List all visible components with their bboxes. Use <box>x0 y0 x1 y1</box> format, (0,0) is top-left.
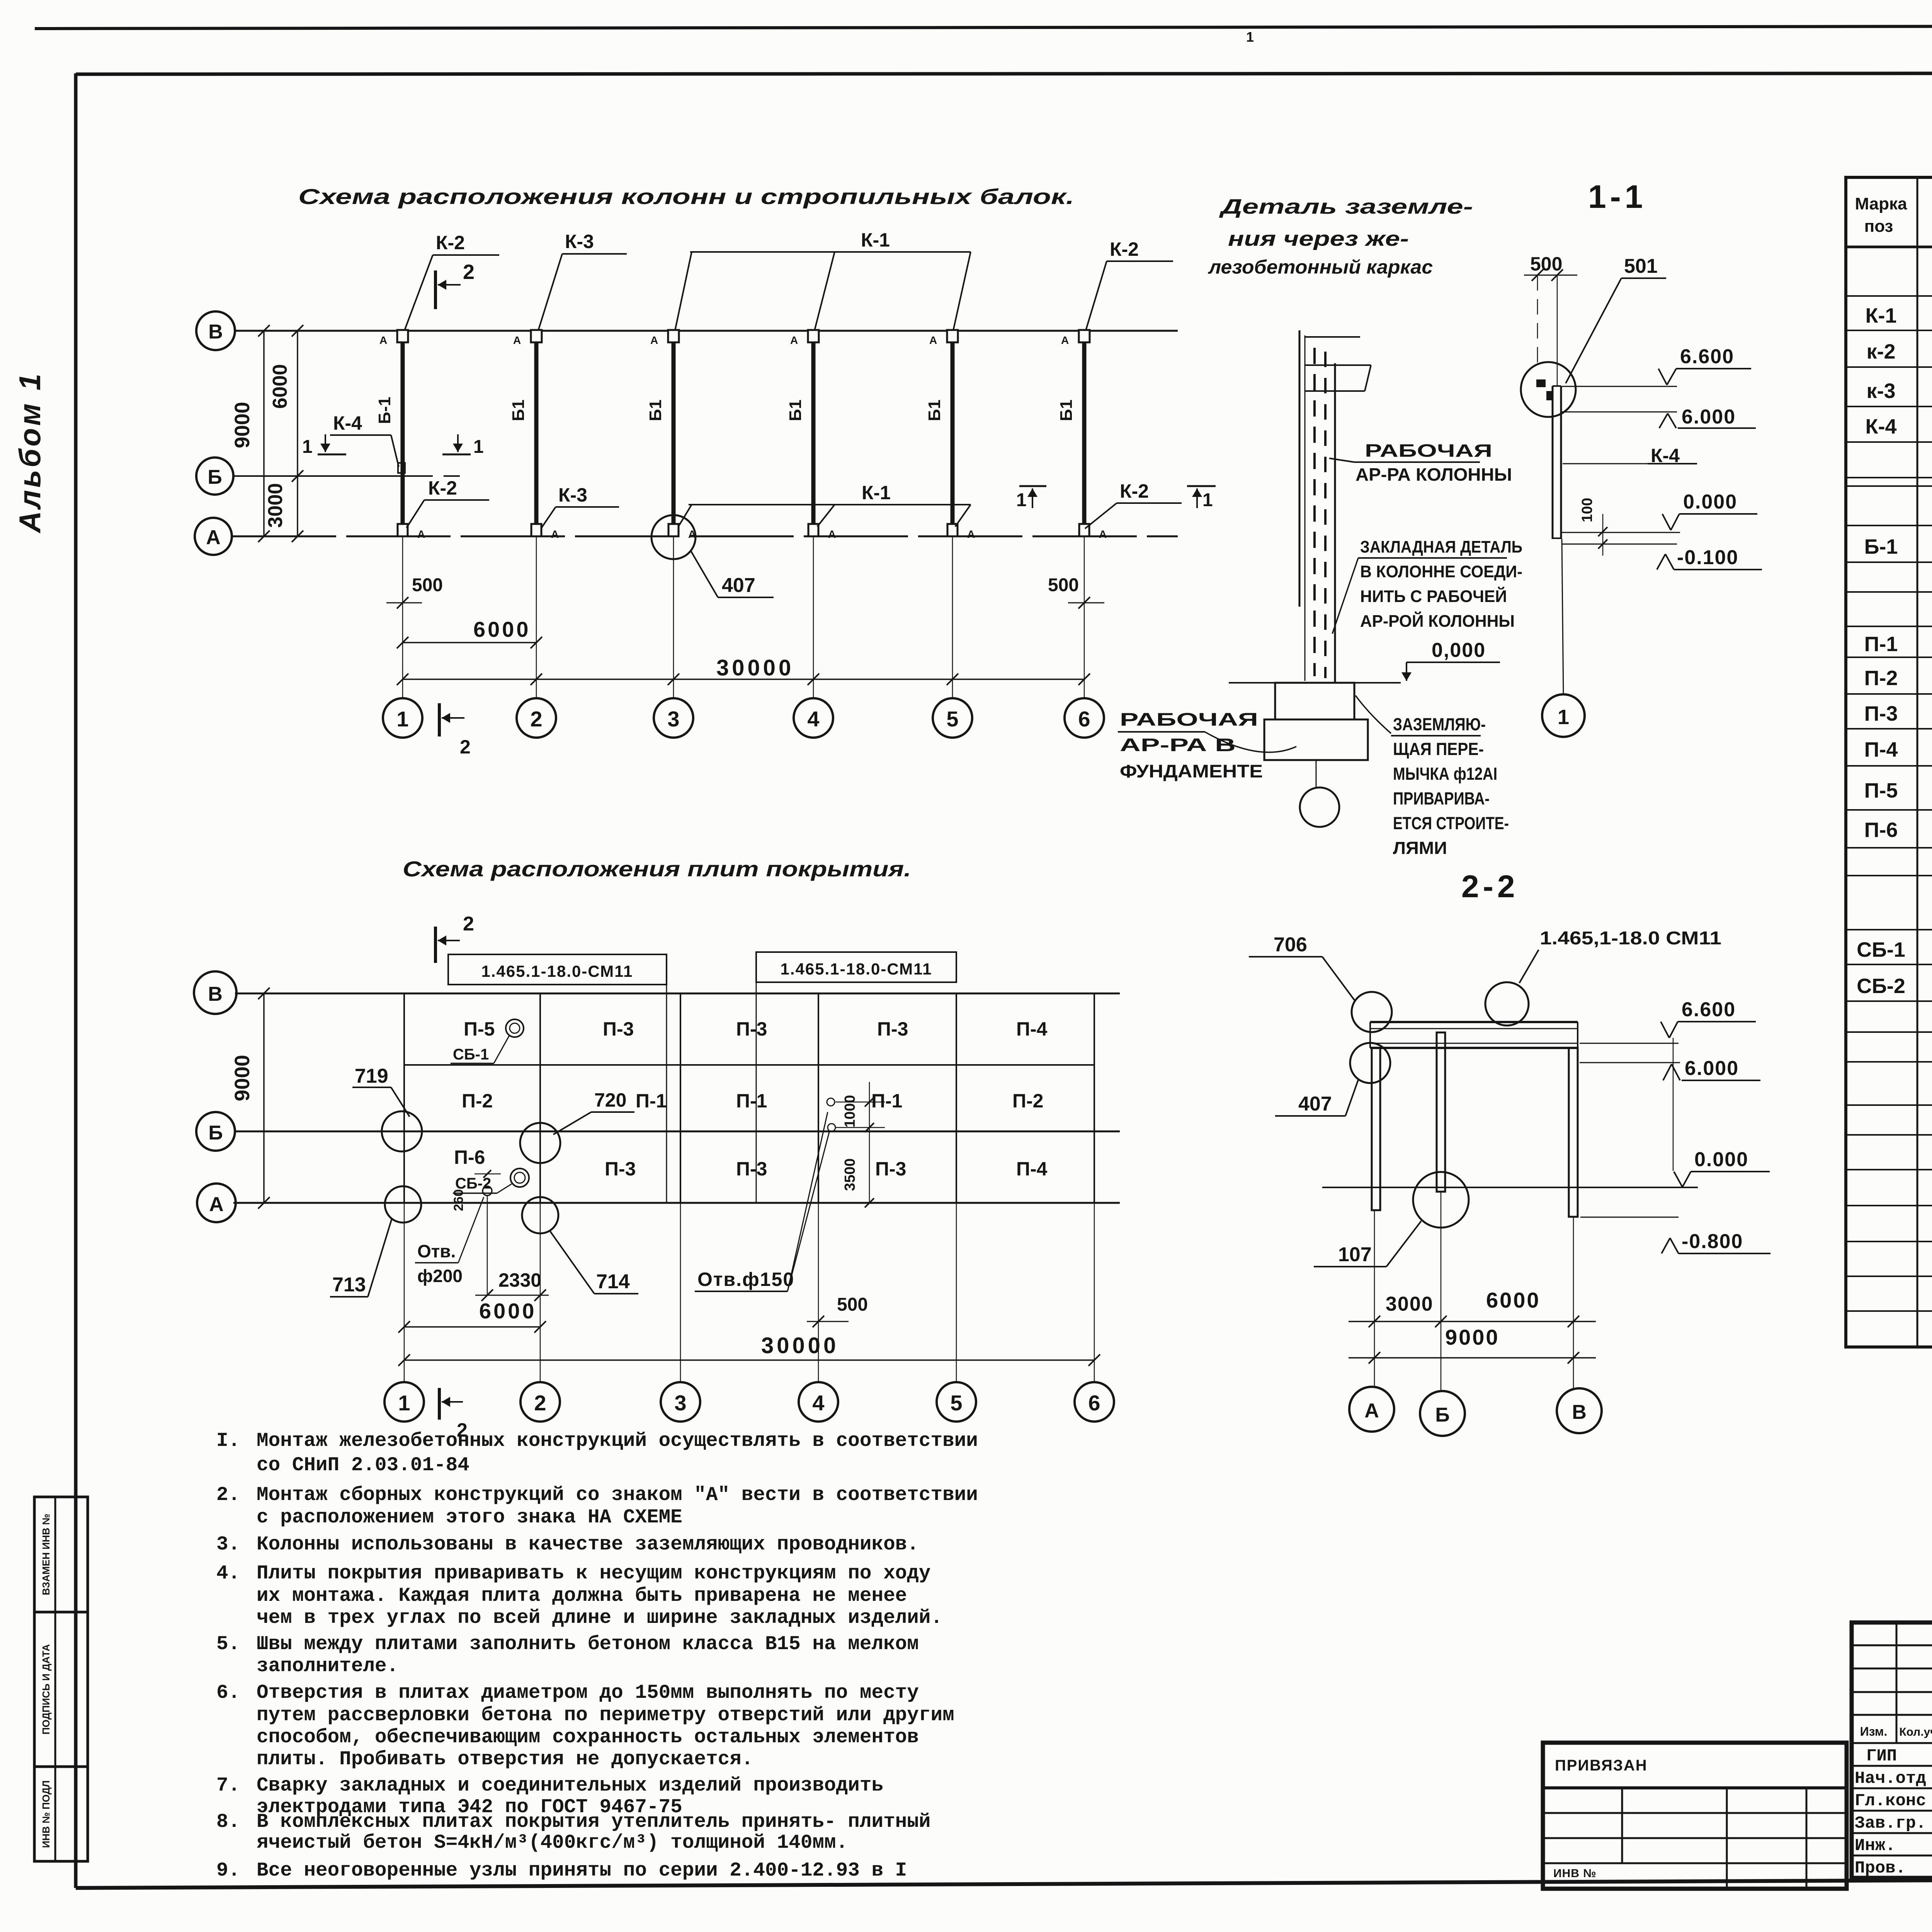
specification table outline <box>1846 177 1932 1347</box>
svg-text:2: 2 <box>463 913 474 935</box>
svg-text:ЩАЯ ПЕРЕ-: ЩАЯ ПЕРЕ- <box>1393 739 1484 759</box>
svg-text:К-3: К-3 <box>565 231 594 252</box>
axis bubble B scheme2 <box>196 1112 235 1151</box>
plate grid vertical 4 <box>818 993 819 1203</box>
joint circle series <box>1485 982 1529 1026</box>
sheet frame border <box>76 73 1932 74</box>
svg-text:6000: 6000 <box>473 617 531 641</box>
svg-text:ГИП: ГИП <box>1866 1747 1897 1766</box>
svg-text:5: 5 <box>950 1391 962 1415</box>
beam B-1 at axis 1 <box>401 337 405 530</box>
svg-text:6000: 6000 <box>479 1299 537 1323</box>
svg-text:К-2: К-2 <box>436 232 465 253</box>
svg-text:А: А <box>790 334 798 346</box>
svg-text:В: В <box>1572 1401 1587 1423</box>
axis bubble V <box>196 311 235 350</box>
plate grid vertical 1 <box>403 993 405 1203</box>
svg-text:К-1: К-1 <box>862 482 891 503</box>
svg-text:2330: 2330 <box>498 1269 541 1291</box>
svg-text:Пров.: Пров. <box>1855 1859 1906 1878</box>
svg-text:Нач.отд: Нач.отд <box>1855 1769 1926 1788</box>
svg-text:со СНиП 2.03.01-84: со СНиП 2.03.01-84 <box>257 1454 469 1476</box>
svg-text:Монтаж сборных конструкций со: Монтаж сборных конструкций со знаком "А"… <box>257 1484 978 1506</box>
svg-text:Б1: Б1 <box>925 400 944 421</box>
plate grid axis B line <box>234 1131 1120 1133</box>
svg-text:6.600: 6.600 <box>1680 345 1734 368</box>
svg-text:1: 1 <box>1202 490 1213 510</box>
column section 1-1 <box>1552 386 1554 539</box>
svg-text:П-2: П-2 <box>1864 667 1898 690</box>
svg-text:407: 407 <box>1298 1093 1332 1115</box>
section mark 1 right <box>442 454 471 456</box>
plate grid axis A line <box>233 1202 1120 1204</box>
axis extension below column <box>1562 539 1563 695</box>
svg-text:5.: 5. <box>216 1633 240 1655</box>
svg-text:713: 713 <box>332 1274 366 1296</box>
svg-text:4.: 4. <box>216 1563 240 1585</box>
welded joint detail circle <box>1521 362 1576 417</box>
svg-text:П-3: П-3 <box>875 1158 906 1180</box>
svg-text:Отверстия в плитах диаметром д: Отверстия в плитах диаметром до 150мм вы… <box>257 1682 919 1704</box>
svg-text:К-4: К-4 <box>333 412 362 434</box>
svg-text:0,000: 0,000 <box>1432 639 1486 662</box>
beam B-1 at axis 2 <box>534 337 539 530</box>
svg-text:3000: 3000 <box>1386 1293 1434 1315</box>
svg-text:1: 1 <box>1016 490 1027 510</box>
revision grid rows <box>1852 1645 1932 1646</box>
svg-text:3: 3 <box>674 1391 686 1415</box>
svg-text:К-3: К-3 <box>558 484 587 506</box>
axis line A <box>232 536 1178 537</box>
svg-text:Отв.: Отв. <box>417 1241 456 1261</box>
revision grid columns <box>1896 1622 1898 1743</box>
joint circle axis1 B <box>382 1111 422 1151</box>
svg-text:107: 107 <box>1338 1243 1372 1266</box>
svg-text:РАБОЧАЯ: РАБОЧАЯ <box>1365 440 1492 461</box>
svg-text:ПОДПИСЬ И ДАТА: ПОДПИСЬ И ДАТА <box>40 1644 52 1735</box>
axis bubble 1 section <box>1542 694 1585 737</box>
svg-text:720: 720 <box>594 1089 626 1111</box>
svg-text:К-2: К-2 <box>428 477 457 499</box>
hole 150 circles <box>827 1098 835 1106</box>
svg-text:ячеистый бетон Ѕ=4кН/м³(400кг: ячеистый бетон Ѕ=4кН/м³(400кгс/м³) толщи… <box>257 1832 848 1854</box>
axis bubble 4 <box>794 698 833 738</box>
axis line V <box>235 330 1178 332</box>
svg-text:6: 6 <box>1078 707 1090 731</box>
svg-text:4: 4 <box>807 707 819 731</box>
plate grid vertical 3 <box>680 993 681 1203</box>
roof slab lines <box>1370 1021 1578 1023</box>
plate grid vertical 6 <box>1094 993 1095 1203</box>
svg-text:-0.800: -0.800 <box>1682 1230 1743 1253</box>
svg-text:Плиты покрытия приваривать к н: Плиты покрытия приваривать к несущим кон… <box>257 1563 930 1585</box>
axis 5 extension line <box>952 536 953 698</box>
svg-text:Б1: Б1 <box>646 400 665 421</box>
svg-text:714: 714 <box>596 1270 630 1293</box>
svg-text:1.465.1-18.0-СМ11: 1.465.1-18.0-СМ11 <box>780 960 932 978</box>
svg-text:3: 3 <box>667 707 679 731</box>
axis extension 2 scheme2 <box>540 1203 541 1382</box>
axis bubble 2 <box>517 698 556 738</box>
svg-text:-0.100: -0.100 <box>1677 546 1738 569</box>
svg-text:Б1: Б1 <box>1057 400 1076 421</box>
plate grid inner line <box>404 1064 1094 1066</box>
section mark 1 up right <box>1187 485 1216 487</box>
svg-text:6: 6 <box>1088 1391 1100 1415</box>
svg-text:Б: Б <box>1435 1404 1449 1426</box>
svg-text:260: 260 <box>451 1189 466 1211</box>
svg-text:I.: I. <box>216 1430 240 1452</box>
svg-text:3500: 3500 <box>842 1158 858 1191</box>
specification table column lines <box>1917 177 1918 1347</box>
svg-text:К-2: К-2 <box>1120 480 1149 502</box>
svg-text:Б: Б <box>208 1122 223 1144</box>
section mark 1 up left <box>1019 485 1046 487</box>
plate grid vertical 2 <box>539 993 541 1203</box>
section cut line left <box>666 985 667 1203</box>
svg-text:ПРИВАРИВА-: ПРИВАРИВА- <box>1393 789 1490 808</box>
svg-text:А: А <box>206 526 221 549</box>
page top rule <box>35 26 1932 29</box>
svg-text:Зав.гр.: Зав.гр. <box>1855 1814 1926 1833</box>
section cut line right <box>756 982 757 1203</box>
detail column right edge <box>1334 363 1336 682</box>
series box 2 <box>756 952 956 982</box>
joint circle axis2 B <box>520 1123 560 1163</box>
svg-text:П-3: П-3 <box>736 1018 767 1040</box>
svg-text:706: 706 <box>1274 934 1307 956</box>
svg-text:к-3: к-3 <box>1866 379 1895 403</box>
section mark 2 top <box>434 270 437 309</box>
axis bubble V section <box>1557 1388 1602 1433</box>
svg-text:к-2: к-2 <box>1866 340 1895 363</box>
svg-text:1.465,1-18.0 СМ11: 1.465,1-18.0 СМ11 <box>1540 928 1721 949</box>
ground line section 2-2 <box>1322 1187 1698 1188</box>
svg-text:1: 1 <box>302 437 313 457</box>
axis bubble A section <box>1349 1387 1394 1432</box>
svg-text:8.: 8. <box>216 1811 240 1833</box>
detail circle 407 <box>651 515 696 559</box>
svg-text:ЗАКЛАДНАЯ ДЕТАЛЬ: ЗАКЛАДНАЯ ДЕТАЛЬ <box>1360 537 1522 556</box>
svg-text:СБ-2: СБ-2 <box>1857 975 1905 998</box>
svg-text:Б: Б <box>207 466 222 488</box>
svg-text:К-1: К-1 <box>1866 304 1897 327</box>
svg-text:П-3: П-3 <box>605 1158 636 1180</box>
detail column head console <box>1305 336 1360 338</box>
svg-text:5: 5 <box>946 707 958 731</box>
svg-text:Деталь заземле-: Деталь заземле- <box>1219 195 1473 218</box>
title block outline <box>1852 1622 1932 1878</box>
svg-text:Монтаж железобетонных конструк: Монтаж железобетонных конструкций осущес… <box>257 1430 978 1452</box>
svg-text:плиты. Пробивать отверстия не: плиты. Пробивать отверстия не допускаетс… <box>257 1748 753 1770</box>
detail column rebar dashes <box>1313 348 1316 676</box>
svg-text:500: 500 <box>1048 575 1079 595</box>
svg-text:Альбом 1: Альбом 1 <box>13 371 47 534</box>
column axis V <box>1569 1048 1578 1217</box>
axis extension lines section 2-2 <box>1374 1210 1375 1387</box>
axis bubble 2 scheme2 <box>520 1382 560 1422</box>
axis bubble 5 <box>933 698 972 738</box>
joint circle 407 <box>1350 1043 1390 1083</box>
svg-text:501: 501 <box>1624 255 1658 277</box>
svg-text:поз: поз <box>1864 217 1893 236</box>
svg-text:6000: 6000 <box>1486 1288 1541 1312</box>
svg-text:0.000: 0.000 <box>1683 491 1737 513</box>
svg-text:2-2: 2-2 <box>1461 869 1519 904</box>
svg-text:2: 2 <box>460 736 471 758</box>
joint circle 706 <box>1352 992 1392 1032</box>
svg-text:с расположением этого знака Н: с расположением этого знака НА СХЕМЕ <box>257 1507 682 1529</box>
column axis A <box>1372 1048 1380 1210</box>
column axis B middle <box>1437 1032 1445 1192</box>
K-4 column square on axis B <box>398 463 405 473</box>
axis extension 5 scheme2 <box>956 1203 957 1382</box>
detail foundation slab <box>1264 719 1368 760</box>
axis bubble 6 <box>1065 698 1104 738</box>
detail ground line <box>1229 682 1275 684</box>
beam B-1 at axis 5 <box>951 337 955 530</box>
svg-text:НИТЬ С РАБОЧЕЙ: НИТЬ С РАБОЧЕЙ <box>1360 586 1507 606</box>
axis extension 3 scheme2 <box>680 1203 681 1382</box>
signature rows lines <box>1852 1765 1932 1767</box>
detail column left edge <box>1299 330 1301 607</box>
svg-text:П-4: П-4 <box>1016 1018 1048 1040</box>
svg-text:К-1: К-1 <box>861 229 890 251</box>
svg-text:500: 500 <box>837 1294 868 1315</box>
svg-text:А: А <box>650 334 658 346</box>
axis bubble A <box>195 518 232 555</box>
svg-text:СБ-1: СБ-1 <box>453 1046 489 1063</box>
svg-text:лезобетонный каркас: лезобетонный каркас <box>1208 256 1433 278</box>
dim 2330 <box>487 1196 488 1295</box>
svg-text:Б1: Б1 <box>786 400 805 421</box>
svg-text:ИНВ №: ИНВ № <box>1553 1867 1597 1880</box>
svg-text:А: А <box>1061 334 1069 346</box>
plate grid axis V line <box>235 993 1120 995</box>
axis 3 extension line <box>673 536 674 698</box>
vertical dim line 6000/3000 <box>297 331 298 536</box>
svg-text:А: А <box>929 334 937 346</box>
axis bubble 1 scheme2 <box>384 1382 424 1422</box>
svg-text:Инж.: Инж. <box>1855 1836 1896 1855</box>
svg-text:Гл.конс: Гл.конс <box>1855 1791 1926 1811</box>
detail position circle <box>1300 787 1339 827</box>
dims 1000 3500 <box>869 1082 870 1203</box>
svg-text:Изм.: Изм. <box>1860 1725 1888 1738</box>
svg-text:3000: 3000 <box>264 483 287 528</box>
svg-text:ФУНДАМЕНТЕ: ФУНДАМЕНТЕ <box>1120 761 1263 781</box>
svg-text:ЛЯМИ: ЛЯМИ <box>1393 838 1447 858</box>
svg-text:30000: 30000 <box>716 655 794 680</box>
svg-text:Б1: Б1 <box>509 400 528 421</box>
svg-text:ф200: ф200 <box>417 1266 463 1286</box>
section mark 2 bottom <box>438 703 441 736</box>
svg-text:1: 1 <box>1246 29 1254 45</box>
svg-text:ПРИВЯЗАН: ПРИВЯЗАН <box>1555 1757 1648 1774</box>
svg-text:1: 1 <box>396 707 408 731</box>
svg-text:П-5: П-5 <box>464 1018 495 1040</box>
svg-text:К-2: К-2 <box>1110 238 1139 260</box>
axis bubble A scheme2 <box>197 1184 236 1222</box>
svg-text:Сварку закладных и соединитель: Сварку закладных и соединительных издели… <box>257 1775 883 1797</box>
svg-text:7.: 7. <box>216 1775 240 1797</box>
svg-text:0.000: 0.000 <box>1694 1148 1748 1171</box>
svg-text:6.000: 6.000 <box>1682 406 1736 428</box>
svg-text:АР-РА КОЛОННЫ: АР-РА КОЛОННЫ <box>1355 464 1512 485</box>
svg-text:407: 407 <box>722 574 755 597</box>
axis extension 4 scheme2 <box>818 1203 819 1382</box>
axis extension 1 scheme2 <box>404 1203 405 1382</box>
svg-text:П-5: П-5 <box>1864 779 1898 802</box>
axis bubble 1 <box>383 698 422 738</box>
detail column inner edge <box>1304 335 1306 681</box>
svg-text:К-4: К-4 <box>1866 415 1897 438</box>
svg-text:100: 100 <box>1579 498 1595 522</box>
svg-text:П-6: П-6 <box>454 1146 485 1168</box>
svg-text:9000: 9000 <box>1445 1325 1500 1349</box>
hole 200 circle <box>483 1186 492 1196</box>
vertical dim line 9000 <box>263 331 265 536</box>
dim 6000 <box>403 642 536 643</box>
svg-text:ВЗАМЕН ИНВ №: ВЗАМЕН ИНВ № <box>40 1514 52 1595</box>
svg-text:способом, обеспечивающим сохра: способом, обеспечивающим сохранность ост… <box>257 1726 919 1748</box>
svg-text:ИНВ № ПОДЛ: ИНВ № ПОДЛ <box>40 1780 52 1848</box>
svg-text:2: 2 <box>463 260 474 284</box>
svg-text:П-1: П-1 <box>871 1090 902 1112</box>
svg-text:П-1: П-1 <box>636 1090 667 1112</box>
svg-text:9.: 9. <box>216 1860 240 1882</box>
dim 30000 <box>403 679 1084 680</box>
svg-text:П-2: П-2 <box>1012 1090 1043 1112</box>
svg-text:РАБОЧАЯ: РАБОЧАЯ <box>1120 709 1258 730</box>
svg-text:9000: 9000 <box>231 402 254 448</box>
axis bubble 5 scheme2 <box>937 1382 976 1422</box>
svg-text:2: 2 <box>534 1391 546 1415</box>
svg-text:Марка: Марка <box>1855 194 1907 213</box>
svg-text:А: А <box>551 528 559 540</box>
svg-text:А: А <box>417 528 425 540</box>
svg-text:В: В <box>208 983 223 1005</box>
svg-text:П-4: П-4 <box>1864 738 1898 761</box>
svg-text:А: А <box>209 1193 224 1216</box>
joint circle axis2 A <box>522 1197 558 1233</box>
svg-text:П-4: П-4 <box>1016 1158 1048 1180</box>
svg-text:В: В <box>208 321 223 343</box>
axis 2 extension line <box>536 536 537 698</box>
svg-text:ния через же-: ния через же- <box>1228 227 1409 250</box>
svg-text:путем рассверловки бетона по п: путем рассверловки бетона по периметру о… <box>257 1704 954 1726</box>
svg-text:В КОЛОННЕ СОЕДИ-: В КОЛОННЕ СОЕДИ- <box>1360 562 1522 581</box>
svg-text:4: 4 <box>812 1391 824 1415</box>
svg-text:П-2: П-2 <box>462 1090 493 1112</box>
axis 1 extension line <box>402 536 403 698</box>
left margin stamp boxes <box>34 1497 88 1861</box>
svg-text:2.: 2. <box>216 1484 240 1506</box>
svg-text:их монтажа. Каждая плита должн: их монтажа. Каждая плита должна быть при… <box>257 1585 907 1607</box>
beam B-1 at axis 3 <box>672 337 676 530</box>
axis bubble 6 scheme2 <box>1075 1382 1114 1422</box>
specification table row lines <box>1846 246 1932 248</box>
svg-text:1-1: 1-1 <box>1588 179 1646 215</box>
svg-text:9000: 9000 <box>231 1055 254 1101</box>
svg-text:П-6: П-6 <box>1864 818 1898 842</box>
privyazan box <box>1543 1743 1847 1889</box>
svg-text:500: 500 <box>1530 253 1562 275</box>
svg-text:ЕТСЯ СТРОИТЕ-: ЕТСЯ СТРОИТЕ- <box>1393 813 1509 833</box>
svg-text:6000: 6000 <box>269 364 291 409</box>
svg-text:719: 719 <box>355 1065 388 1087</box>
joint circle axis1 A <box>385 1186 421 1223</box>
svg-text:Колонны использованы в качеств: Колонны использованы в качестве заземляю… <box>257 1534 919 1556</box>
axis bubble B section <box>1420 1391 1465 1436</box>
axis bubble 4 scheme2 <box>799 1382 838 1422</box>
svg-text:МЫЧКА ф12АI: МЫЧКА ф12АI <box>1393 764 1497 784</box>
svg-text:Схема расположения колонн и ст: Схема расположения колонн и стропильных … <box>298 184 1074 209</box>
section mark 2 bottom scheme2 <box>438 1388 441 1420</box>
svg-text:1: 1 <box>1558 706 1569 729</box>
svg-text:П-1: П-1 <box>736 1090 767 1112</box>
detail foundation upper block <box>1275 683 1354 719</box>
svg-text:АР-РА В: АР-РА В <box>1120 735 1236 755</box>
svg-text:АР-РОЙ КОЛОННЫ: АР-РОЙ КОЛОННЫ <box>1360 611 1515 631</box>
svg-text:1.465.1-18.0-СМ11: 1.465.1-18.0-СМ11 <box>481 962 633 980</box>
svg-text:А: А <box>1099 528 1107 540</box>
svg-text:А: А <box>379 334 387 346</box>
svg-text:30000: 30000 <box>761 1333 839 1358</box>
svg-text:500: 500 <box>412 575 443 595</box>
svg-text:ЗАЗЕМЛЯЮ-: ЗАЗЕМЛЯЮ- <box>1393 714 1486 734</box>
axis 4 extension line <box>813 536 814 698</box>
svg-text:чем в трех углах по всей длине: чем в трех углах по всей длине и ширине … <box>257 1607 942 1629</box>
svg-text:А: А <box>513 334 521 346</box>
svg-text:6.600: 6.600 <box>1682 998 1736 1021</box>
svg-text:СБ-1: СБ-1 <box>1857 938 1905 961</box>
svg-text:Б-1: Б-1 <box>375 397 394 424</box>
svg-text:заполнителе.: заполнителе. <box>257 1655 398 1677</box>
svg-text:Б-1: Б-1 <box>1864 535 1898 558</box>
detail foundation axis line <box>1316 760 1317 787</box>
svg-text:А: А <box>967 528 975 540</box>
svg-text:Швы между плитами заполнить бе: Швы между плитами заполнить бетоном клас… <box>257 1633 919 1655</box>
svg-text:П-3: П-3 <box>736 1158 767 1180</box>
svg-text:Все неоговоренные узлы приняты: Все неоговоренные узлы приняты по серии … <box>257 1860 907 1882</box>
beam B-1 at axis 6 <box>1082 337 1087 530</box>
svg-text:П-3: П-3 <box>1864 702 1898 725</box>
axis bubble 3 <box>654 698 693 738</box>
vertical dim 9000 scheme2 <box>263 993 265 1203</box>
svg-text:1000: 1000 <box>842 1095 858 1128</box>
svg-text:1: 1 <box>473 437 484 457</box>
svg-text:2: 2 <box>530 707 542 731</box>
svg-text:Отв.ф150: Отв.ф150 <box>697 1269 794 1290</box>
base joint circle <box>1413 1172 1469 1228</box>
axis bubble 3 scheme2 <box>661 1382 700 1422</box>
svg-text:А: А <box>828 528 836 540</box>
svg-text:3.: 3. <box>216 1534 240 1556</box>
svg-text:6.: 6. <box>216 1682 240 1704</box>
series box 1 <box>448 954 667 985</box>
svg-text:П-3: П-3 <box>603 1018 634 1040</box>
svg-text:П-3: П-3 <box>877 1018 908 1040</box>
svg-text:А: А <box>1364 1400 1379 1422</box>
svg-text:Схема расположения плит покрыт: Схема расположения плит покрытия. <box>403 857 911 881</box>
svg-text:П-1: П-1 <box>1864 633 1898 656</box>
axis line B (short) <box>233 475 433 477</box>
beam B-1 at axis 4 <box>811 337 816 530</box>
svg-text:Кол.уч: Кол.уч <box>1899 1726 1932 1738</box>
plate grid vertical 5 <box>956 993 957 1203</box>
svg-text:1: 1 <box>398 1391 410 1415</box>
